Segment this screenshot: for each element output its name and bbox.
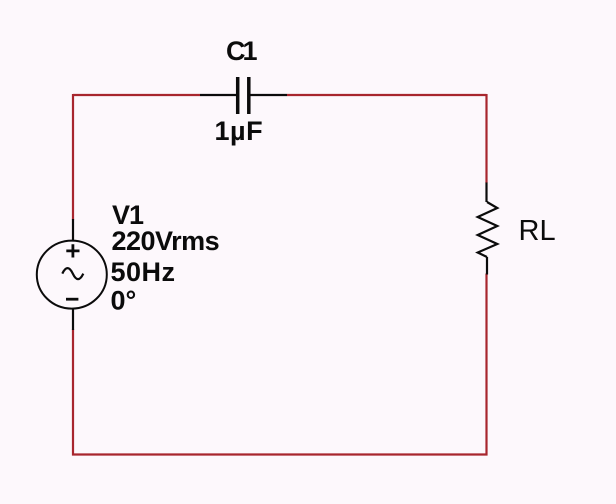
wire left upper segment: [72, 94, 74, 220]
V1 sine wave: [62, 268, 83, 279]
resistor RL: [478, 183, 498, 275]
wire left lower segment: [72, 329, 74, 456]
V1 pin lead top: [72, 219, 74, 241]
wire right lower segment: [485, 274, 487, 456]
C1 plate left: [236, 77, 240, 114]
svg-text:0°: 0°: [111, 286, 137, 316]
RL pin lead top: [485, 183, 487, 203]
C1 pin lead right: [251, 94, 288, 96]
C1 pin lead left: [200, 94, 236, 96]
V1 pin lead bottom: [72, 308, 74, 330]
capacitor C1: [200, 77, 287, 114]
RL pin lead bottom: [486, 257, 488, 275]
V1 plus sign: [66, 244, 79, 257]
C1 plate right: [247, 77, 251, 114]
svg-text:1µF: 1µF: [215, 116, 264, 146]
wire bottom segment (node between V1 and RL): [72, 453, 488, 455]
wire top-left segment (node between V1 and C1): [73, 94, 200, 96]
V1 minus sign: [66, 298, 78, 301]
svg-text:50Hz: 50Hz: [111, 257, 176, 287]
RL zigzag body: [478, 202, 498, 257]
wire right upper segment: [485, 94, 487, 183]
AC voltage source V1: [37, 219, 107, 330]
wire top-right segment (node between C1 and RL): [287, 94, 487, 96]
svg-text:C1: C1: [226, 36, 257, 66]
svg-text:220Vrms: 220Vrms: [112, 226, 220, 256]
svg-text:RL: RL: [519, 215, 556, 247]
V1 circle body: [37, 241, 107, 309]
